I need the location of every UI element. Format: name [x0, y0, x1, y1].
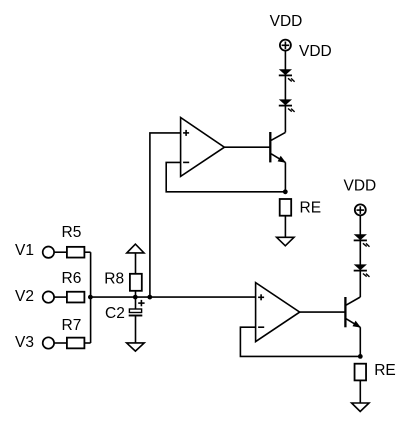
- wire U2 inverting input feedback to emitter node: [240, 327, 360, 356]
- svg-text:RE: RE: [300, 199, 322, 216]
- ground (channel 2): [352, 403, 369, 412]
- wire C2 to ground: [135, 316, 137, 343]
- resistor R5: [67, 247, 85, 258]
- svg-text:R5: R5: [62, 224, 82, 241]
- terminal V3: [43, 337, 54, 348]
- wire emitter Q1 down to node: [284, 162, 286, 191]
- wire U1 non-inverting input down to signal node: [150, 133, 181, 297]
- transistor Q2 (NPN, channel 2): [345, 297, 361, 328]
- op-amp U1 (channel 1): [181, 118, 225, 177]
- svg-text:R8: R8: [104, 271, 124, 288]
- resistor R6: [67, 292, 85, 303]
- svg-text:V3: V3: [15, 334, 34, 351]
- terminal V2: [43, 291, 54, 302]
- svg-text:RE: RE: [374, 362, 396, 379]
- wire emitter Q2 down to node: [359, 327, 361, 356]
- wire RE to ground (channel 1): [284, 216, 286, 238]
- svg-text:VDD: VDD: [270, 13, 303, 30]
- wire VDD to transistor collector (channel 2 LED chain): [359, 216, 361, 297]
- power arrow above R8: [127, 244, 144, 253]
- wire VDD to transistor collector (channel 1 LED chain): [284, 51, 286, 133]
- ground (channel 1): [277, 237, 294, 246]
- wire R7 to bus: [84, 342, 90, 344]
- svg-text:VDD: VDD: [344, 178, 377, 195]
- wire U2 output to Q2 base: [300, 311, 346, 313]
- junction bus / V2 row: [88, 295, 93, 300]
- LED D2 (channel 1 lower): [279, 99, 295, 112]
- power supply VDD symbol (channel 2): [355, 204, 366, 215]
- wire R8 to node: [135, 291, 137, 297]
- polarity plus of C2: [138, 300, 144, 306]
- wire RE to ground (channel 2): [359, 380, 361, 403]
- wire V1 to R5: [55, 251, 67, 253]
- ground below C2: [127, 343, 145, 351]
- wire summing bus vertical: [90, 252, 92, 343]
- resistor RE (channel 2): [355, 364, 367, 381]
- svg-text:V1: V1: [15, 242, 34, 259]
- capacitor C2: [129, 309, 143, 316]
- terminal V1: [43, 247, 54, 258]
- LED D1 (channel 1 upper): [279, 69, 295, 82]
- wire R5 to bus: [84, 251, 90, 253]
- junction U1 input branch node: [147, 295, 152, 300]
- power supply VDD symbol (channel 1): [280, 40, 291, 51]
- transistor Q1 (NPN, channel 1): [270, 132, 286, 163]
- wire U1 output to Q1 base: [224, 146, 270, 148]
- resistor RE (channel 1): [280, 199, 292, 216]
- wire arrow to R8: [135, 253, 137, 274]
- junction emitter node (channel 2): [358, 354, 363, 359]
- resistor R7: [67, 338, 85, 349]
- junction emitter node (channel 1): [283, 189, 288, 194]
- svg-text:V2: V2: [15, 288, 34, 305]
- svg-text:C2: C2: [105, 305, 125, 322]
- LED D3 (channel 2 upper): [354, 234, 370, 247]
- svg-text:VDD: VDD: [299, 43, 332, 60]
- wire V3 to R7: [55, 342, 67, 344]
- junction R8 node: [133, 295, 138, 300]
- wire main signal node horizontal: [91, 296, 256, 298]
- op-amp U2 (channel 2): [256, 283, 300, 342]
- resistor R8: [130, 274, 142, 291]
- svg-text:R6: R6: [62, 270, 82, 287]
- svg-text:R7: R7: [62, 317, 82, 334]
- wire node to C2: [135, 297, 137, 309]
- wire U1 inverting input feedback to emitter node: [166, 162, 285, 191]
- wire V2 to R6: [55, 296, 67, 298]
- LED D4 (channel 2 lower): [354, 264, 370, 277]
